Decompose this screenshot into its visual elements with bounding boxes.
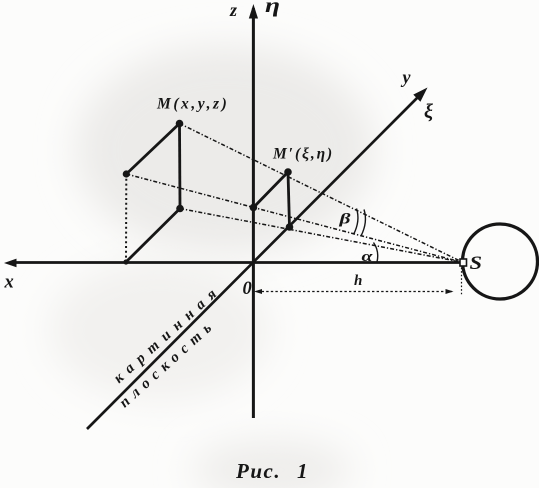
box edge C-D [126, 209, 180, 263]
segment M'-xi (vertical drop) [288, 172, 290, 227]
angle beta arc 2 [361, 210, 365, 237]
svg-text:η: η [265, 0, 280, 17]
scan shading mid-left [50, 260, 270, 400]
svg-text:M′(ξ,η): M′(ξ,η) [272, 146, 334, 163]
projection ray C-S [180, 209, 461, 263]
point B [123, 170, 130, 177]
projection ray M-S [180, 124, 462, 262]
scan shading caption [192, 440, 352, 488]
projection ray B-S [126, 174, 461, 262]
svg-text:S: S [470, 253, 483, 274]
dimension line h (dotted) [257, 291, 452, 293]
arrowhead y/xi axis [413, 88, 427, 102]
point xi-coordinate on xi axis [286, 223, 294, 231]
svg-text:Рис.: Рис. [235, 459, 281, 483]
dimension arrow left [254, 289, 262, 294]
svg-text:α: α [362, 249, 374, 265]
point M [176, 120, 184, 128]
point D [123, 259, 128, 264]
angle beta arc 1 [354, 209, 358, 235]
extension line below S (dotted) [461, 268, 463, 297]
scan shading upper-middle [75, 45, 375, 255]
axis z (vertical) [252, 8, 255, 418]
point S marker (small square) [460, 259, 467, 266]
svg-text:M(x,y,z): M(x,y,z) [156, 96, 229, 113]
box edge B-D (dotted vertical) [125, 174, 127, 261]
point eta-coordinate on z axis [250, 204, 258, 212]
point M' [284, 168, 292, 176]
svg-text:1: 1 [297, 459, 308, 483]
axis x (horizontal) [10, 261, 462, 264]
svg-text:y: y [401, 67, 412, 87]
angle alpha arc [374, 243, 378, 263]
segment M'-eta (parallel to xi axis) [253, 172, 288, 208]
svg-text:x: x [4, 273, 14, 293]
eye sphere at S [463, 224, 538, 299]
box edge M-B [126, 124, 179, 175]
dimension arrow right [446, 289, 454, 294]
axis y/xi (diagonal) [87, 91, 424, 429]
point C [176, 205, 184, 213]
svg-text:z: z [229, 0, 237, 20]
box edge M-C (vertical) [178, 124, 181, 209]
svg-text:0: 0 [243, 279, 252, 299]
svg-text:h: h [354, 273, 362, 289]
svg-text:ξ: ξ [424, 101, 433, 123]
svg-text:β: β [338, 212, 351, 228]
arrowhead z axis [249, 4, 258, 19]
arrowhead x axis [4, 259, 17, 268]
